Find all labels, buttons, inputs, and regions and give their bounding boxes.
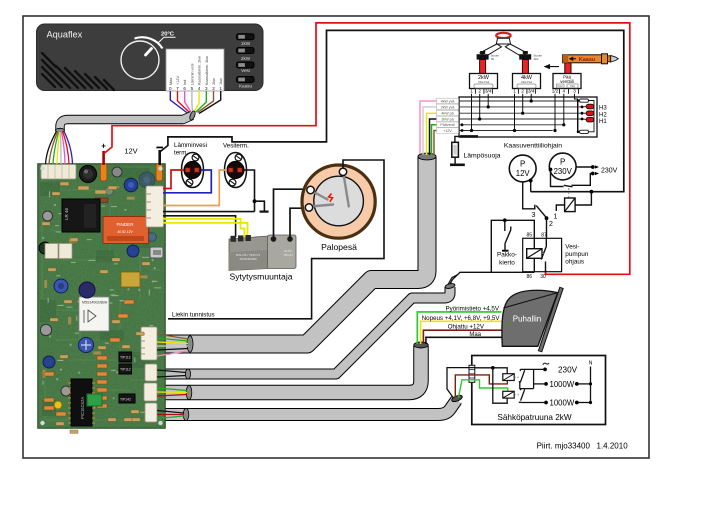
- wire P230V to 230V terminal 1: [576, 166, 593, 168]
- H dots: [581, 106, 584, 109]
- switch Vesi: [237, 62, 255, 73]
- thermostat T2 body: [225, 153, 247, 188]
- heater contact 1: [519, 369, 534, 388]
- svg-text:230V: 230V: [558, 366, 578, 375]
- HV wire to electrode 1: [274, 189, 308, 237]
- fan wire dark red Ohjattu: [423, 330, 501, 344]
- svg-text:5: 5: [191, 86, 194, 91]
- pump relay coil: [527, 249, 542, 259]
- wire yellow B PCB to transformer: [163, 223, 248, 237]
- HV wire to electrode 2: [290, 208, 305, 237]
- capacitor C3 blue: [124, 178, 138, 192]
- burner ring: [496, 33, 510, 38]
- svg-text:TIP112: TIP112: [120, 368, 131, 372]
- svg-text:2: 2: [521, 89, 524, 94]
- svg-text:kierto: kierto: [499, 260, 515, 267]
- svg-text:Nopeus +4,1V, +6,8V, +9,5V: Nopeus +4,1V, +6,8V, +9,5V: [422, 315, 501, 322]
- svg-text:Käsi: Käsi: [557, 84, 562, 88]
- svg-text:Liekin tunnistus: Liekin tunnistus: [172, 312, 215, 319]
- panel terminal block: [166, 49, 224, 91]
- svg-text:N: N: [589, 361, 593, 367]
- svg-text:M5S14002/8BH: M5S14002/8BH: [82, 301, 108, 305]
- svg-text:110: 110: [534, 57, 539, 61]
- fan wire yellow Nopeus: [421, 321, 502, 344]
- 1000W row 1: [534, 383, 544, 385]
- svg-text:4: 4: [563, 89, 566, 94]
- svg-text:3: 3: [573, 89, 576, 94]
- panel wires to cable: [170, 91, 220, 114]
- manifold left pipe: [480, 44, 502, 57]
- panel hatch decoration: [42, 53, 114, 90]
- svg-text:7: 7: [176, 86, 179, 91]
- left nozzle fitting: [477, 54, 489, 59]
- svg-text:TRION: TRION: [283, 253, 292, 257]
- svg-text:1: 1: [554, 214, 558, 221]
- svg-text:H3: H3: [599, 105, 607, 111]
- svg-text:2: 2: [549, 221, 553, 228]
- feed wire yellow 4kW pä: [427, 113, 460, 155]
- black ground loop wire: [160, 30, 624, 191]
- fan wire black Maa: [426, 337, 502, 344]
- svg-text:Aquaflex: Aquaflex: [47, 30, 83, 40]
- svg-text:Vesi-: Vesi-: [565, 244, 579, 251]
- capacitor C12: [61, 386, 71, 396]
- svg-text:4kW yvä: 4kW yvä: [441, 99, 455, 103]
- svg-text:Kaasu: Kaasu: [239, 83, 252, 88]
- feed wire white 2kW yvä: [423, 107, 459, 155]
- heater contact 2: [519, 389, 544, 403]
- capacitor C2: [112, 167, 122, 177]
- small parts scatter: [42, 192, 150, 433]
- svg-text:1: 1: [513, 89, 516, 94]
- capacitor C8 big: [79, 282, 95, 298]
- junction dots controller: [461, 99, 566, 132]
- cable end caps: [189, 110, 197, 121]
- svg-text:Ind.: Ind.: [183, 79, 187, 85]
- red pipe to main valve: [565, 63, 571, 74]
- minus mark: [156, 147, 163, 149]
- capacitor C5: [39, 242, 51, 254]
- link dashes heater: [514, 376, 519, 378]
- burner Palopesä: [302, 165, 375, 238]
- svg-text:+12V: +12V: [176, 76, 180, 85]
- 1000W row 2: [544, 401, 548, 405]
- svg-text:Vesi: Vesi: [241, 68, 250, 73]
- bottom rail to cable: [450, 272, 534, 284]
- svg-text:Kaasulämm. 4kw: Kaasulämm. 4kw: [205, 56, 209, 85]
- svg-text:12V: 12V: [516, 169, 531, 178]
- fuse holder - terminal: [156, 164, 163, 182]
- svg-text:venttiili: venttiili: [560, 79, 573, 84]
- connector J2: [141, 327, 157, 360]
- heater relay coil 2: [503, 391, 514, 398]
- svg-text:86: 86: [527, 274, 533, 280]
- svg-text:2: 2: [478, 89, 481, 94]
- valve 4kW: [513, 74, 541, 94]
- diode D1: [95, 198, 108, 202]
- capacitor C4: [43, 211, 53, 221]
- feed wire brown +12V: [434, 131, 459, 156]
- svg-text:85: 85: [527, 233, 533, 239]
- svg-text:Lämmin vesi: Lämmin vesi: [190, 64, 194, 85]
- svg-text:78: 78: [491, 57, 495, 61]
- junction dot: [253, 199, 257, 203]
- knob: [121, 41, 159, 79]
- wire black PCB to junction: [163, 211, 255, 213]
- svg-text:FINDER: FINDER: [116, 222, 134, 227]
- svg-text:2kW yvä: 2kW yvä: [441, 105, 455, 109]
- svg-text:Välä Pää: Välä Pää: [478, 80, 490, 84]
- wire fan J4 to fan cable: [157, 388, 187, 396]
- svg-text:4: 4: [198, 86, 201, 91]
- ignition transformer body: [229, 235, 296, 271]
- igniter rail resistor top: [580, 99, 589, 102]
- red pipe to 4kW valve: [522, 60, 528, 74]
- PCB circuit board: [38, 164, 165, 434]
- svg-text:Piirt. mjo33400: Piirt. mjo33400: [537, 442, 591, 451]
- svg-text:Kaasulämm. 2kw: Kaasulämm. 2kw: [198, 56, 202, 85]
- svg-text:Lämpösuoja: Lämpösuoja: [464, 153, 501, 160]
- svg-text:0: 0: [169, 86, 172, 91]
- relay contact 87-30: [541, 238, 546, 271]
- P12V pin to rail: [530, 180, 532, 191]
- svg-text:Kaasuventtiiliohjain: Kaasuventtiiliohjain: [504, 143, 562, 150]
- svg-text:12V: 12V: [124, 147, 137, 156]
- controller columns: [472, 94, 578, 132]
- connector J1 top left: [41, 165, 76, 180]
- resistors group lower: [44, 300, 134, 416]
- svg-text:Ohjattu +12V: Ohjattu +12V: [448, 324, 485, 331]
- Aquaflex control panel: [37, 24, 264, 91]
- capacitor C11: [43, 356, 55, 368]
- fan blade slat: [538, 287, 563, 352]
- connector J6 right: [146, 186, 164, 227]
- gas flow arrow: [545, 65, 559, 69]
- pin 86 wire: [533, 258, 535, 272]
- svg-text:Sytytysmuuntaja: Sytytysmuuntaja: [229, 272, 292, 282]
- cable panel to PCB: [60, 116, 192, 131]
- red supply stub: [102, 151, 105, 165]
- svg-text:1000W: 1000W: [550, 399, 575, 408]
- manifold right pipe: [505, 44, 527, 57]
- coil pin 1 stub: [556, 205, 564, 211]
- transformer T1: [121, 272, 140, 287]
- pcb trace texture: [42, 175, 160, 420]
- electric heater box: [472, 356, 606, 425]
- svg-text:pumpun: pumpun: [565, 251, 589, 258]
- capacitor C10: [40, 324, 51, 335]
- connector J5: [145, 403, 157, 422]
- svg-text:1/2: 1/2: [552, 89, 559, 94]
- igniter H1: [582, 118, 586, 120]
- wire red PCB to T1: [163, 170, 184, 189]
- pressure switch P 230V: [549, 153, 576, 180]
- capacitor C13: [139, 172, 155, 188]
- svg-text:H2: H2: [599, 112, 607, 118]
- contact arm 3-2: [536, 206, 546, 218]
- module green: [87, 394, 102, 406]
- wire yellow A PCB to transformer: [163, 219, 245, 237]
- cap yellow: [54, 401, 62, 409]
- connector J4: [144, 383, 157, 401]
- border frame: [23, 16, 649, 458]
- svg-text:1: 1: [219, 86, 222, 91]
- igniter H3: [582, 106, 586, 108]
- spark: [329, 194, 333, 202]
- thermostat T1 body: [182, 153, 204, 188]
- capacitor C14: [105, 187, 113, 195]
- svg-text:3/4: 3/4: [528, 89, 535, 94]
- svg-text:Maa: Maa: [169, 77, 173, 85]
- svg-text:1.4.2010: 1.4.2010: [597, 442, 629, 451]
- feed wire green Pääventt: [432, 125, 460, 155]
- svg-text:1000W: 1000W: [550, 380, 575, 389]
- svg-text:TIP142: TIP142: [120, 398, 131, 402]
- svg-text:Pääventt: Pääventt: [440, 123, 454, 127]
- svg-text:LR 46: LR 46: [64, 207, 69, 220]
- capacitor C1: [79, 165, 96, 182]
- wire black PCB to transformer: [163, 216, 236, 237]
- capacitor C6: [54, 279, 68, 293]
- 230V L terminal: [520, 368, 543, 370]
- svg-text:2kw: 2kw: [212, 78, 216, 85]
- wire orange PCB to T2: [163, 170, 227, 206]
- electrode rods: [311, 174, 349, 207]
- transistor Q3 TIP142: [119, 394, 135, 403]
- svg-text:20°C: 20°C: [161, 31, 175, 37]
- svg-text:Pää: Pää: [570, 84, 575, 88]
- cable PCB to gas valve controller: [164, 157, 427, 345]
- svg-text:230V: 230V: [554, 167, 573, 176]
- svg-text:3: 3: [532, 212, 536, 219]
- usb connector: [150, 247, 163, 258]
- switch 1kW: [237, 34, 255, 46]
- manifold neck: [496, 38, 510, 44]
- svg-text:Pakko-: Pakko-: [497, 252, 517, 259]
- cable PCB to pump relay: [164, 287, 450, 374]
- fuse holder + terminal: [100, 164, 107, 182]
- switch 2kW: [237, 48, 255, 61]
- svg-text:2kW: 2kW: [241, 56, 251, 61]
- svg-text:ohjaus: ohjaus: [565, 259, 584, 266]
- cable PCB to fan: [164, 346, 421, 393]
- igniter rail resistor bottom: [580, 130, 589, 133]
- wire black T2 to junction: [244, 170, 255, 212]
- svg-text:Vesiterm.: Vesiterm.: [223, 143, 249, 150]
- igniter left rail: [577, 101, 579, 132]
- wire P230V left to contact: [551, 170, 564, 187]
- capacitor C15: [148, 233, 157, 242]
- feed wire black 2kW pä: [430, 119, 460, 155]
- relay coil K3: [565, 198, 576, 212]
- wire fan J5 to heater cable: [157, 411, 184, 419]
- IC U1 PIC: [71, 379, 92, 426]
- wire blue T1 to PCB: [163, 170, 211, 193]
- igniter right bus: [589, 101, 595, 132]
- controller bus bar: [460, 135, 478, 138]
- svg-text:2kW pä: 2kW pä: [441, 117, 453, 121]
- pakkokierto dot: [503, 218, 507, 222]
- svg-text:3: 3: [205, 86, 208, 91]
- svg-text:40.52 12V: 40.52 12V: [117, 230, 133, 234]
- svg-text:Puhallin: Puhallin: [513, 315, 541, 324]
- knob scale arc: [135, 37, 163, 48]
- heater dark red wire: [455, 375, 507, 397]
- svg-text:Palopesä: Palopesä: [321, 242, 357, 252]
- igniter H2: [582, 112, 586, 114]
- spark gap stub: [255, 201, 265, 211]
- coil pin 2 wire to rail: [575, 192, 591, 205]
- valve 2kW: [470, 74, 498, 94]
- svg-text:30: 30: [540, 274, 546, 280]
- row labels: [437, 98, 459, 133]
- gas valve controller box: [459, 97, 597, 137]
- opto module white label: [79, 297, 109, 331]
- svg-text:P: P: [560, 158, 565, 167]
- P12V pin to contact 3: [523, 182, 535, 209]
- svg-text:H1: H1: [599, 119, 607, 125]
- pump relay box: [523, 238, 562, 271]
- svg-text:40V6N6GBR: 40V6N6GBR: [239, 257, 257, 261]
- wire contact 2 to relay contact: [546, 218, 548, 238]
- heater black wire: [447, 368, 475, 398]
- cable PCB to electric heater: [164, 400, 457, 415]
- capacitor C9: [78, 337, 93, 352]
- resistor row: [60, 182, 117, 194]
- wire fan cable1 to J1: [46, 131, 73, 165]
- mechanical link dashes: [568, 188, 570, 198]
- capacitor C7 blue: [127, 245, 139, 257]
- pressure switch P 12V: [509, 155, 536, 182]
- svg-text:2: 2: [212, 86, 215, 91]
- red pipe to 2kW valve: [480, 60, 486, 74]
- wire fan J3 to pump cable: [157, 370, 186, 377]
- svg-text:P: P: [520, 160, 525, 169]
- svg-text:+12V: +12V: [443, 129, 452, 133]
- transistor Q2 TIP112: [119, 364, 132, 374]
- svg-text:1kW: 1kW: [241, 41, 251, 46]
- svg-text:230V: 230V: [601, 168, 618, 175]
- svg-text:87: 87: [541, 233, 547, 239]
- right nozzle fitting: [519, 54, 531, 59]
- svg-text:TIP112: TIP112: [120, 356, 131, 360]
- black supply stub: [158, 150, 161, 165]
- heater green wire: [459, 380, 508, 398]
- svg-text:Lämminvesi: Lämminvesi: [174, 142, 207, 149]
- svg-text:3/4: 3/4: [485, 89, 492, 94]
- fan Puhallin: [502, 290, 558, 346]
- thermal fuse Lämpösuoja: [450, 136, 465, 164]
- feed wire pink 4kW yvä: [420, 101, 459, 154]
- flame sensor wire: [168, 160, 384, 319]
- heater common rail: [475, 368, 507, 374]
- svg-text:Välä Pää: Välä Pää: [521, 80, 533, 84]
- Kaasu gas supply pipe: [563, 54, 619, 64]
- electrode terminals: [307, 186, 314, 193]
- second pump wire: [448, 275, 458, 285]
- connector J3: [145, 364, 157, 381]
- pcb silkscreen clutter: [42, 168, 161, 422]
- svg-text:6: 6: [183, 86, 186, 91]
- terminal strip: [469, 365, 475, 382]
- svg-text:+: +: [101, 142, 106, 151]
- fan wire green Pyörimistieto: [417, 312, 501, 344]
- svg-text:Sähköpatruuna 2kW: Sähköpatruuna 2kW: [497, 413, 571, 422]
- svg-text:Kaasu: Kaasu: [579, 57, 596, 63]
- switch Kaasu: [237, 77, 255, 89]
- wire P230V contact to 230V terminal 2: [572, 174, 593, 186]
- svg-text:Pyörimistieto +4,5V: Pyörimistieto +4,5V: [446, 305, 500, 312]
- pin 85 wire: [491, 220, 534, 272]
- pakkokierto switch: [504, 220, 506, 231]
- heater relay coil 1: [503, 374, 514, 381]
- transistor Q1 TIP112: [119, 352, 132, 362]
- link dashes pump relay: [542, 253, 546, 255]
- svg-text:PIC16C62A: PIC16C62A: [80, 397, 85, 419]
- svg-text:1kw: 1kw: [219, 78, 223, 85]
- svg-text:Maa: Maa: [469, 332, 481, 338]
- wire fan J2 to gas cable: [157, 334, 188, 356]
- pcb photo noise overlay: [38, 164, 165, 428]
- red +12V loop wire: [104, 23, 630, 274]
- relay K2 orange FINDER: [103, 217, 149, 244]
- film caps: [45, 244, 58, 259]
- pressure contact arm: [564, 185, 573, 187]
- controller wire rows: [459, 101, 582, 131]
- relay K1 black: [62, 199, 100, 232]
- svg-text:4kW pä: 4kW pä: [441, 112, 453, 116]
- valve Pää venttiili: [552, 74, 581, 94]
- svg-text:1: 1: [470, 89, 473, 94]
